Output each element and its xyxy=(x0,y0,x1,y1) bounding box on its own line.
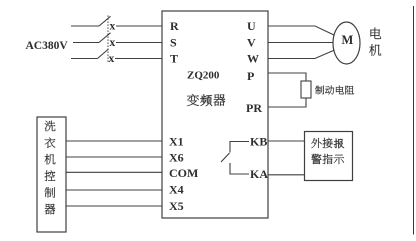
wire R to box xyxy=(116,25,162,27)
label 制动电阻 xyxy=(315,86,354,95)
svg-text:V: V xyxy=(247,36,256,50)
breaker QF pole T blade xyxy=(98,49,109,59)
svg-text:P: P xyxy=(247,69,254,83)
svg-text:U: U xyxy=(247,19,256,33)
svg-text:X6: X6 xyxy=(169,150,184,164)
wire X5 xyxy=(66,205,162,207)
breaker QF pole S blade xyxy=(99,33,111,43)
svg-text:M: M xyxy=(342,33,354,47)
breaker linkage dotted line xyxy=(107,16,109,63)
svg-text:x: x xyxy=(110,37,116,49)
wire S to box xyxy=(116,42,162,44)
inverter box U0 ZQ200 xyxy=(162,11,268,218)
wire U to motor xyxy=(268,26,335,35)
wire KB to alarm box xyxy=(268,140,304,142)
label 变频器 xyxy=(187,94,225,106)
wire X1 xyxy=(66,140,162,142)
page border right xyxy=(413,6,415,235)
wire COM xyxy=(66,171,162,173)
relay contact KA-KB wire top xyxy=(230,142,249,153)
svg-text:KA: KA xyxy=(250,167,268,181)
svg-text:T: T xyxy=(170,52,178,66)
relay contact KA-KB wire bottom xyxy=(230,163,249,174)
wire X4 xyxy=(66,189,162,191)
label 警指示 xyxy=(311,154,344,164)
svg-text:S: S xyxy=(170,36,177,50)
relay contact blade xyxy=(221,153,230,162)
svg-text:KB: KB xyxy=(250,134,267,148)
svg-text:X1: X1 xyxy=(169,134,184,148)
label 电机 xyxy=(369,28,381,56)
svg-text:R: R xyxy=(170,19,179,33)
label 洗衣机控制器 xyxy=(45,121,56,215)
wire T input xyxy=(71,58,98,60)
svg-text:AC380V: AC380V xyxy=(26,40,69,52)
resistor R1 braking xyxy=(301,81,311,98)
wire X6 xyxy=(66,156,162,158)
wire R input xyxy=(71,25,99,27)
controller box washing machine xyxy=(37,117,66,232)
wire KA to alarm box xyxy=(268,174,304,176)
label 外接报 xyxy=(311,138,344,149)
wire S input xyxy=(73,42,99,44)
wire T to box xyxy=(115,58,162,60)
motor M circle xyxy=(333,22,360,64)
svg-text:ZQ200: ZQ200 xyxy=(187,70,220,82)
svg-text:W: W xyxy=(247,52,259,66)
wire V to motor xyxy=(268,42,333,44)
wire W to motor xyxy=(268,50,335,59)
breaker QF pole R blade xyxy=(99,16,111,26)
svg-text:x: x xyxy=(110,20,116,32)
wire P to resistor xyxy=(268,73,306,81)
svg-text:PR: PR xyxy=(246,101,262,115)
wire resistor to PR xyxy=(268,98,306,107)
alarm indicator box xyxy=(305,132,353,181)
svg-text:COM: COM xyxy=(169,166,198,180)
svg-text:x: x xyxy=(109,53,115,65)
svg-text:X4: X4 xyxy=(169,183,184,197)
svg-text:X5: X5 xyxy=(169,199,184,213)
